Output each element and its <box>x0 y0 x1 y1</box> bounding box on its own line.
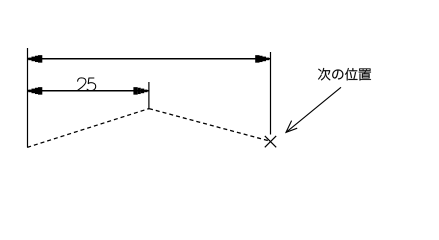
extension line right <box>270 52 272 135</box>
dashed line right segment <box>149 109 271 142</box>
dimension line top <box>27 58 270 60</box>
arrowhead 25-right <box>144 90 147 93</box>
text 25: digit 2 <box>77 78 86 91</box>
extension tick (25 dim right side) <box>148 82 150 109</box>
extension line left <box>27 48 29 147</box>
arrowhead top-right <box>266 58 269 61</box>
arrowhead 25-left <box>28 90 31 93</box>
leader line <box>286 87 341 132</box>
leader arrowhead <box>286 121 297 133</box>
text 25: digit 5 <box>87 78 96 91</box>
arrowhead top-left <box>28 58 31 61</box>
text 次の位置 <box>318 68 371 81</box>
dashed line left segment <box>27 109 149 148</box>
X marker <box>265 136 276 147</box>
dimension line 25 <box>27 90 148 92</box>
